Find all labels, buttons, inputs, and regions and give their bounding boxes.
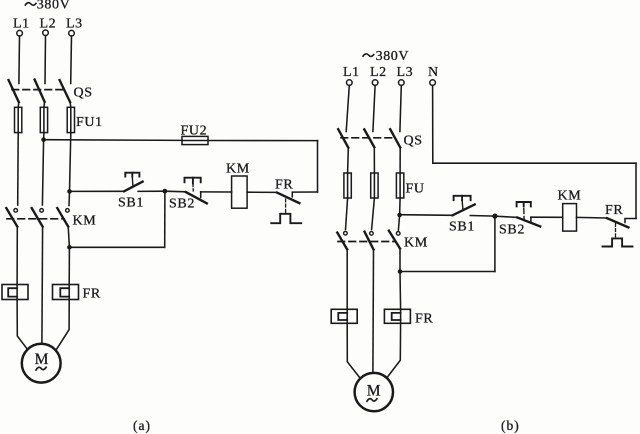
wire L1 terminal to QS (b)	[346, 85, 349, 131]
svg-text:FU: FU	[406, 182, 425, 197]
KM linkage dashed line (a)	[7, 218, 64, 220]
svg-text:N: N	[428, 65, 439, 80]
wire right side vertical (a)	[317, 141, 319, 192]
wire KM to motor pole 2 (b)	[372, 250, 375, 374]
svg-text:FR: FR	[415, 312, 433, 327]
label ~380V (a)	[25, 0, 70, 13]
wire KM to selfhold node pole 3 (b)	[399, 249, 401, 272]
svg-text:QS: QS	[404, 134, 423, 149]
svg-text:FU2: FU2	[181, 124, 208, 139]
svg-text:380V: 380V	[376, 49, 410, 64]
wire KM to selfhold node pole 3 (a)	[68, 227, 69, 248]
wire QS to FU1 pole 3 (a)	[69, 102, 72, 107]
svg-text:KM: KM	[558, 189, 582, 204]
svg-text:SB2: SB2	[499, 223, 525, 238]
svg-text:L3: L3	[397, 65, 414, 80]
svg-text:FR: FR	[275, 178, 293, 193]
wire QS to FU pole 1 (b)	[347, 148, 350, 173]
wire self-hold horizontal (a)	[69, 246, 164, 248]
wire self-hold horizontal (b)	[400, 271, 495, 273]
svg-text:(a): (a)	[133, 418, 151, 433]
svg-text:FU1: FU1	[76, 115, 103, 130]
thermal relay FR heater element 2 (b)	[384, 309, 410, 323]
svg-text:L3: L3	[66, 17, 83, 32]
fuse FU pole 3 (b)	[396, 173, 403, 198]
svg-text:QS: QS	[74, 86, 93, 101]
svg-text:L1: L1	[13, 17, 30, 32]
wire tap to KM pole 3 (a)	[68, 191, 71, 205]
svg-text:KM: KM	[73, 214, 97, 229]
wire SB1 to node (b)	[470, 215, 495, 218]
terminal L3 (b)	[399, 80, 405, 86]
wire node to SB2 (b)	[495, 216, 517, 217]
fuse FU pole 1 (b)	[344, 173, 351, 198]
wire selfhold node to FR heater pole 3 (b)	[399, 272, 402, 310]
wire L3 tap to SB1 (a)	[70, 190, 125, 192]
disconnect switch QS pole 1 blade (b)	[338, 129, 348, 147]
svg-text:M: M	[367, 382, 381, 399]
wire selfhold node to FR heater pole 3 (a)	[68, 247, 70, 284]
wire FU1 to node tap pole 3 (a)	[70, 133, 71, 192]
fuse FU1 pole 2 (a)	[40, 107, 47, 132]
node self-hold junction (b)	[398, 269, 403, 274]
wire KM coil to FR contact (a)	[247, 191, 277, 193]
thermal relay FR heater element 1 (b)	[331, 309, 357, 323]
wire FR to motor phase 1 (a)	[17, 300, 28, 350]
wire SB2 to KM coil (a)	[201, 191, 232, 193]
wire FR to motor phase 3 (a)	[57, 300, 70, 350]
pushbutton SB1 NC contact (b)	[453, 196, 475, 216]
pushbutton SB1 NC contact (a)	[124, 173, 143, 192]
svg-text:SB1: SB1	[449, 220, 475, 235]
wire FU to node tap pole 3 (b)	[399, 198, 402, 215]
terminal L2 (a)	[43, 30, 49, 36]
contactor KM pole 3 contact (a)	[57, 208, 69, 227]
wire KM coil to FR contact (b)	[577, 216, 608, 219]
disconnect switch QS pole 2 blade (b)	[364, 129, 374, 147]
wire L3 terminal to QS (b)	[400, 85, 401, 131]
disconnect switch QS pole 3 blade (a)	[60, 80, 71, 102]
contactor coil KM (a)	[232, 176, 248, 208]
svg-text:380V: 380V	[37, 0, 71, 13]
contactor KM pole 1 contact (a)	[6, 208, 17, 227]
svg-text:L2: L2	[370, 65, 387, 80]
disconnect switch QS pole 1 blade (a)	[9, 80, 19, 102]
node self-hold junction (a)	[67, 245, 72, 250]
node control tap on L3 (a)	[67, 189, 72, 194]
node control tap on L2 (a)	[41, 137, 46, 142]
terminal N (b)	[430, 80, 436, 86]
QS linkage dashed line (a)	[12, 89, 66, 91]
wire KM to FR heater pole 1 (b)	[346, 250, 348, 310]
wire control bus tap to FU2 (a)	[44, 139, 182, 142]
contactor KM pole 3 contact (b)	[389, 231, 400, 249]
contactor KM pole 1 contact (b)	[337, 231, 347, 249]
wire self-hold vertical (a)	[164, 191, 166, 247]
svg-text:L1: L1	[343, 65, 360, 80]
thermal relay FR heater element 1 (a)	[2, 285, 28, 300]
wire FU2 to right corner (a)	[208, 140, 318, 142]
wire tap to KM pole 2 (a)	[42, 140, 43, 205]
thermal relay FR NC contact (b)	[603, 218, 637, 246]
wire KM to FR heater pole 1 (a)	[16, 227, 18, 285]
svg-text:FR: FR	[83, 287, 101, 302]
wire FU1 to KM pole 1 (a)	[17, 133, 20, 205]
wire QS to FU1 pole 1 (a)	[17, 102, 20, 107]
svg-text:M: M	[35, 351, 49, 368]
disconnect switch QS pole 3 blade (b)	[390, 129, 400, 147]
contactor coil KM (b)	[563, 204, 577, 232]
wire tap to KM pole 3 (b)	[398, 215, 399, 230]
svg-text:FR: FR	[605, 203, 623, 218]
wire N right vertical (b)	[635, 163, 637, 218]
wire FR to motor phase 3 (b)	[387, 323, 401, 378]
wire N horizontal (b)	[433, 162, 636, 164]
node SB1/SB2/self-hold junction (a)	[163, 189, 168, 194]
svg-text:(b): (b)	[501, 418, 520, 433]
wire FU to KM pole 2 (b)	[372, 198, 375, 230]
node control tap on L3 (b)	[397, 213, 402, 218]
terminal L3 (a)	[69, 30, 75, 36]
wire QS to FU1 pole 2 (a)	[43, 102, 46, 108]
wire L2 terminal to QS (a)	[44, 36, 47, 84]
terminal L2 (b)	[372, 80, 378, 86]
wire L3 tap to SB1 (b)	[400, 214, 453, 217]
KM linkage dashed line (b)	[338, 241, 395, 243]
svg-text:KM: KM	[404, 236, 428, 251]
motor M (a)	[22, 344, 61, 383]
wire L1 terminal to QS (a)	[18, 36, 21, 84]
wire self-hold vertical (b)	[494, 216, 496, 271]
fuse FU1 pole 1 (a)	[15, 107, 22, 132]
motor M (b)	[355, 373, 393, 411]
pushbutton SB2 NO contact (b)	[517, 202, 541, 226]
wire L3 terminal to QS (a)	[70, 36, 73, 84]
thermal relay FR heater element 2 (a)	[53, 285, 79, 300]
contactor KM pole 2 contact (a)	[32, 208, 44, 227]
svg-text:SB2: SB2	[169, 197, 195, 212]
label ~380V (b)	[363, 49, 409, 64]
terminal L1 (a)	[17, 30, 23, 36]
fuse FU pole 2 (b)	[371, 173, 378, 198]
node SB1/SB2/self-hold junction (b)	[492, 214, 497, 219]
thermal relay FR NC contact (a)	[271, 192, 317, 223]
wire FU1 to node tap pole 2 (a)	[43, 133, 45, 140]
wire FU to KM pole 1 (b)	[346, 198, 348, 230]
disconnect switch QS pole 2 blade (a)	[35, 80, 45, 102]
QS linkage dashed line (b)	[341, 137, 395, 139]
wire KM to motor pole 2 (a)	[41, 227, 44, 344]
fuse FU2 (a)	[182, 136, 208, 144]
wire N terminal down (b)	[432, 85, 434, 163]
svg-text:L2: L2	[40, 17, 57, 32]
svg-text:KM: KM	[226, 162, 250, 177]
wire FR to motor phase 1 (b)	[347, 323, 360, 379]
terminal L1 (b)	[347, 80, 353, 86]
pushbutton SB2 NO contact (a)	[185, 178, 207, 204]
wire QS to FU pole 2 (b)	[373, 147, 375, 173]
wire SB2 to KM coil (b)	[531, 216, 563, 218]
fuse FU1 pole 3 (a)	[67, 107, 74, 132]
wire L2 terminal to QS (b)	[373, 85, 375, 131]
wire node to SB2 (a)	[165, 190, 186, 193]
contactor KM pole 2 contact (b)	[365, 232, 374, 250]
svg-text:SB1: SB1	[118, 196, 144, 211]
wire SB1 to node (a)	[138, 190, 165, 192]
wire QS to FU pole 3 (b)	[399, 147, 401, 173]
